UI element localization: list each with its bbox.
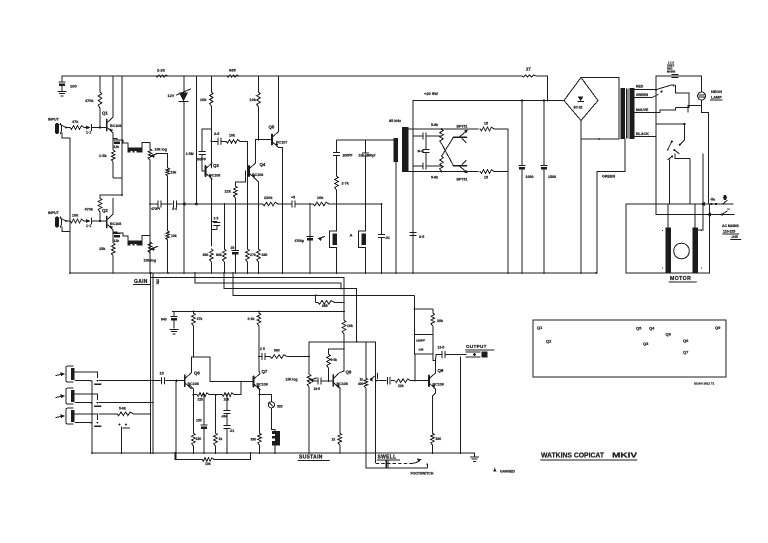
wire jack bus left — [91, 381, 93, 453]
resistor 150 (Q6 emitter) — [192, 395, 202, 453]
svg-text:AC MAINS: AC MAINS — [722, 224, 740, 228]
resistor 22k (Q4 base) — [225, 171, 246, 250]
label chart Q9 — [715, 325, 721, 330]
capacitor 25 (x235) — [231, 246, 239, 273]
wire bus4 to 20k — [413, 308, 432, 310]
wire x336 vertical top — [336, 140, 338, 152]
node rail junctions — [69, 272, 597, 274]
svg-text:47k: 47k — [197, 317, 203, 321]
potentiometer 10k log (sustain) — [286, 342, 321, 453]
svg-text:BC108: BC108 — [337, 382, 348, 386]
svg-text:BC108: BC108 — [257, 383, 268, 387]
svg-text:470Pf: 470Pf — [151, 207, 161, 211]
svg-text:12k: 12k — [114, 239, 120, 243]
resistor 2-2k (Q7 load) — [248, 311, 261, 371]
wire Q1 emitter tail — [113, 166, 122, 195]
transistor Q8 BC108 — [333, 370, 352, 389]
wire Q2 collector up — [112, 198, 114, 214]
svg-text:100: 100 — [70, 84, 77, 89]
wire cap-10k — [296, 203, 313, 205]
svg-text:MOTOR: MOTOR — [670, 276, 691, 282]
svg-text:RED: RED — [636, 85, 644, 89]
svg-text:GREEN: GREEN — [602, 175, 615, 179]
wire Q3 emitter — [210, 179, 212, 246]
svg-text:Q9: Q9 — [438, 368, 444, 373]
wire to x336 — [329, 203, 382, 205]
wire jack3 wiring — [75, 372, 98, 382]
svg-text:·1M: ·1M — [418, 348, 424, 352]
switch contact jack5 — [90, 422, 101, 426]
wire x703 — [696, 154, 703, 230]
wire Q4 emitter — [256, 179, 259, 249]
wire ac terminal 2 — [656, 204, 734, 217]
svg-text:110-225: 110-225 — [723, 230, 735, 234]
capacitor 3-5 (Q3 out) — [214, 132, 226, 145]
wire Q9 collector — [433, 354, 436, 373]
wire top supply rail — [62, 75, 522, 77]
wire Q1 emitter down — [112, 133, 114, 140]
svg-text:INPUT: INPUT — [48, 118, 60, 122]
wire tap MAUVE — [635, 108, 661, 113]
svg-text:22k: 22k — [398, 384, 404, 388]
svg-text:~: ~ — [727, 207, 730, 213]
svg-text:320: 320 — [277, 405, 283, 409]
wire q9 coll to cap — [435, 355, 438, 361]
capacitor 470PF (mix ch1) — [151, 201, 161, 211]
wire Q8 collector — [340, 342, 344, 373]
svg-text:MKIV: MKIV — [612, 453, 637, 460]
wire swell wiper — [369, 373, 377, 381]
resistor 10k (feedback bottom) — [175, 453, 251, 466]
svg-text:Q6: Q6 — [683, 338, 689, 343]
jack J4 (echo) — [56, 388, 74, 404]
wire Q5 emitter down — [279, 148, 284, 274]
resistor 47k — [70, 120, 84, 129]
resistor 5-6k (Q8 fb) — [327, 348, 345, 381]
wire Q2 emitter to head2 — [113, 233, 128, 240]
capacitor 1000pf (x365) — [359, 140, 377, 231]
svg-text:20k: 20k — [437, 319, 443, 323]
svg-text:10k: 10k — [171, 171, 177, 175]
wire pot1 down — [149, 160, 151, 273]
svg-text:10k: 10k — [250, 98, 257, 102]
resistor 685 (in top rail) — [227, 68, 239, 78]
svg-text:BY-32: BY-32 — [574, 106, 583, 110]
svg-text:Q2: Q2 — [546, 339, 552, 344]
svg-text:1·5k: 1·5k — [99, 154, 107, 158]
label MOTOR — [669, 276, 697, 282]
svg-text:1·5M: 1·5M — [186, 152, 194, 156]
svg-text:BFY51: BFY51 — [457, 178, 468, 182]
capacitor 15 (Q6 input) — [158, 372, 185, 384]
svg-text:A: A — [350, 233, 353, 238]
wire Q1 emitter to head — [113, 140, 128, 147]
resistor 1k (Q8 emitter) — [332, 433, 342, 453]
wire head A down — [365, 248, 367, 274]
wire head1 to pot — [142, 143, 150, 150]
svg-text:-245: -245 — [731, 235, 738, 239]
resistor 10k (Q8 load) — [342, 310, 353, 342]
wire 220k-cap — [278, 203, 291, 205]
svg-text:13·5: 13·5 — [314, 387, 321, 391]
wire bottom ground rail — [92, 452, 475, 454]
capacitor 640 + ground — [161, 312, 178, 334]
svg-text:3 5: 3 5 — [214, 217, 219, 221]
svg-text:390: 390 — [203, 253, 209, 257]
svg-text:15: 15 — [484, 122, 488, 126]
svg-text:Q1: Q1 — [537, 325, 543, 330]
svg-text:150: 150 — [196, 419, 202, 423]
wire bus4 — [233, 273, 414, 309]
svg-text:15k: 15k — [99, 247, 106, 251]
resistor 1-5M — [184, 102, 194, 274]
wire gain pot down pair — [151, 273, 154, 453]
transistor Q9 BC108 — [429, 368, 444, 389]
resistor 10k (Q5 load) — [250, 76, 261, 140]
svg-text:Q8: Q8 — [666, 332, 672, 337]
node Q1 base — [99, 126, 101, 128]
svg-text:680: 680 — [274, 349, 280, 353]
svg-text:685: 685 — [229, 68, 236, 73]
motor rotor — [674, 243, 690, 259]
head B (playback) — [319, 231, 337, 248]
svg-text:2·7k: 2·7k — [342, 182, 349, 186]
wire x336 to head B — [336, 204, 338, 231]
wire y204 left — [149, 203, 157, 205]
wire bank2 out — [670, 154, 690, 204]
svg-text:685: 685 — [322, 304, 328, 308]
svg-text:Q6: Q6 — [194, 371, 200, 376]
svg-text:470k: 470k — [85, 208, 94, 212]
capacitor 1000 — [519, 166, 534, 274]
motor terminal marks — [662, 230, 703, 269]
label title WATKINS COPICAT MKIV — [541, 453, 638, 460]
wire Q6 emitter — [191, 387, 194, 396]
resistor 1k (Q6) — [214, 395, 223, 453]
svg-text:25k: 25k — [156, 279, 160, 285]
svg-text:10k: 10k — [205, 462, 211, 466]
resistor 15 (osc upper out) — [480, 122, 494, 131]
svg-text:220k: 220k — [264, 196, 273, 200]
wire osc lower rail — [413, 171, 478, 173]
svg-text:100PF: 100PF — [416, 339, 425, 343]
label chart Q2 — [546, 339, 552, 344]
jack OUTPUT — [466, 351, 488, 357]
resistor 2-7k — [335, 176, 349, 204]
ganged link mark — [386, 461, 388, 468]
label OUTPUT — [466, 344, 495, 350]
svg-text:Q3: Q3 — [213, 163, 219, 168]
svg-text:Q7: Q7 — [262, 369, 268, 374]
svg-text:27: 27 — [526, 67, 531, 72]
label chart Q6 — [683, 338, 689, 343]
wire Q2 bias feed — [100, 76, 123, 196]
svg-text:10k: 10k — [171, 234, 177, 238]
svg-text:1·1: 1·1 — [86, 224, 91, 228]
wire osc frame — [409, 101, 414, 274]
svg-text:SUSTAIN: SUSTAIN — [299, 455, 323, 461]
capacitor -064 — [221, 394, 230, 419]
resistor 10k (input2) — [70, 214, 84, 223]
wire bridge bottom to ground rail — [580, 139, 582, 273]
label AC MAINS — [722, 224, 741, 239]
resistor 80k (x224) — [216, 203, 226, 273]
transistor Q1 BC108 — [102, 111, 121, 134]
wire x175 vertical — [175, 381, 177, 460]
wire green primary return — [597, 139, 625, 273]
wire bridge bottom loop — [581, 121, 619, 140]
resistor 22k (Q9 input) — [395, 379, 430, 388]
svg-text:10k: 10k — [224, 398, 230, 402]
transformer T1 core — [621, 88, 635, 139]
svg-text:15: 15 — [484, 176, 488, 180]
svg-text:22k: 22k — [198, 398, 204, 402]
wire pot to Q8 — [313, 378, 329, 384]
svg-text:10k: 10k — [347, 324, 353, 328]
transformer T2 85kHz core — [389, 119, 409, 172]
capacitor 150 (Q6) — [196, 395, 207, 453]
svg-text:300: 300 — [358, 382, 364, 386]
resistor 10k (Q3 collector load) — [200, 76, 213, 168]
capacitor 1-1 (input2 coupling) — [84, 218, 100, 228]
svg-text:Q3: Q3 — [643, 341, 649, 346]
resistor 685 (feedback) — [315, 295, 345, 309]
wire tap BLACK — [635, 132, 657, 137]
svg-text:BC108: BC108 — [188, 382, 199, 386]
transistor Q BFY51 upper — [454, 125, 468, 143]
svg-text:85 kHz: 85 kHz — [389, 119, 401, 123]
label chart Q8 — [666, 332, 672, 337]
wire main ground rail — [70, 272, 596, 274]
resistor 10k (Q6 fb2) — [222, 393, 241, 402]
wire Q4 collector — [256, 139, 273, 163]
capacitor 500PF — [196, 129, 206, 171]
resistor 330 (x258) — [257, 203, 268, 273]
label GANGED — [493, 468, 515, 474]
capacitor 2-5 + resistor 680 — [259, 347, 308, 360]
wire y204 mid — [196, 203, 258, 205]
svg-text:BC108: BC108 — [433, 383, 444, 387]
svg-text:5-6k: 5-6k — [431, 123, 438, 127]
head / volume element ch1 — [128, 144, 142, 153]
svg-text:27k: 27k — [250, 253, 256, 257]
resistor 470k (Q1 bias) — [85, 76, 102, 128]
wire Q2 emitter down — [112, 230, 114, 233]
switch SW2a — [667, 140, 685, 150]
jack J2 INPUT — [48, 211, 62, 228]
label chart Q4 — [649, 326, 655, 331]
head / volume element ch2 — [128, 237, 142, 246]
wire Q6 emitter chain — [193, 394, 197, 396]
svg-text:Q9: Q9 — [715, 325, 721, 330]
svg-text:470k: 470k — [85, 99, 94, 103]
wire input1 sleeve down — [62, 133, 70, 273]
label chart Q5 — [636, 326, 642, 331]
svg-text:FOOTSWITCH: FOOTSWITCH — [411, 472, 434, 476]
jack J5 (echo) — [56, 408, 74, 424]
chart transistor location box — [533, 320, 726, 377]
svg-text:13-5: 13-5 — [438, 346, 445, 350]
wire x196 vertical — [195, 76, 197, 204]
wire jack4 wiring — [75, 394, 98, 404]
feedback box 100PF 1M — [414, 309, 433, 354]
svg-text:12k: 12k — [114, 145, 120, 149]
svg-text:+20 5W: +20 5W — [424, 91, 438, 96]
svg-text:22k: 22k — [225, 190, 232, 194]
svg-text:330: 330 — [436, 437, 442, 441]
svg-text:1·1: 1·1 — [86, 131, 91, 135]
wire fb mid — [203, 394, 222, 396]
svg-text:2-2k: 2-2k — [157, 68, 166, 73]
wire Q7 emitter — [257, 387, 260, 433]
resistor 20k (Q9 load) — [431, 309, 443, 335]
wire x522 vertical — [521, 99, 523, 165]
svg-text:1k: 1k — [332, 438, 336, 442]
bridge rectifier BY-32 — [564, 78, 598, 121]
resistor 10k (echo send) — [313, 196, 329, 206]
record head (sustain) — [271, 408, 280, 453]
svg-text:10k: 10k — [200, 98, 207, 102]
svg-text:NEON: NEON — [711, 90, 722, 94]
neon lamp — [698, 90, 723, 100]
svg-text:Q4: Q4 — [260, 162, 266, 167]
resistor 27 — [522, 67, 536, 78]
wire bus3 — [224, 273, 357, 342]
resistor 10k (pot1 feed) — [157, 154, 177, 205]
wire Q2 base — [100, 220, 107, 222]
capacitor 12k5 (Q1 emitter bypass) — [113, 139, 120, 150]
potentiometer 10k log (ch2 level) — [144, 242, 158, 263]
capacitor 0-1 (osc lower) — [413, 163, 442, 169]
svg-text:1k: 1k — [360, 378, 364, 382]
resistor 470k (Q2 bias) — [85, 195, 102, 221]
wire x121 vertical — [121, 427, 123, 453]
jack J3 (echo) — [56, 366, 74, 382]
fuse -5a — [710, 195, 727, 204]
svg-text:330: 330 — [262, 253, 268, 257]
svg-text:1000: 1000 — [526, 175, 534, 179]
resistor 10k (y141) — [226, 134, 248, 144]
pot wiper arrows on y204 — [182, 202, 198, 206]
svg-text:Q5: Q5 — [636, 326, 642, 331]
svg-text:INPUT: INPUT — [48, 211, 60, 215]
wire Q3 branch left — [202, 128, 212, 130]
wire osc cross-coupling — [442, 137, 454, 166]
svg-text:200PF: 200PF — [343, 154, 353, 158]
svg-text:12V: 12V — [168, 94, 175, 98]
svg-text:BC108: BC108 — [252, 173, 263, 177]
svg-text:Q2: Q2 — [102, 208, 108, 213]
wire Q1 base — [100, 127, 107, 129]
svg-text:10k: 10k — [317, 196, 324, 200]
wire +20 rail — [413, 91, 563, 101]
wire Q8 base — [328, 380, 334, 382]
potentiometer SWELL 1k — [358, 342, 368, 453]
potentiometer 10k log (ch1 level) — [148, 148, 167, 160]
svg-text:BLACK: BLACK — [636, 132, 649, 136]
svg-text:3·4: 3·4 — [172, 207, 177, 211]
wire Q7 collector — [258, 356, 260, 374]
capacitor 13-5 (output) — [436, 346, 466, 358]
capacitor C 100 supply decoupling — [59, 76, 78, 91]
switch SW2b — [668, 149, 679, 160]
svg-text:BC108: BC108 — [209, 174, 220, 178]
svg-text:GANGED: GANGED — [500, 470, 515, 474]
wire pot2 down — [149, 253, 151, 273]
wire x396 vertical — [395, 162, 397, 273]
label scan note — [694, 382, 715, 386]
label GAIN — [134, 279, 151, 285]
switch SW1a — [655, 76, 675, 93]
svg-text:1k: 1k — [219, 437, 223, 441]
svg-text:2·2k: 2·2k — [248, 317, 255, 321]
svg-text:3·5: 3·5 — [419, 235, 424, 239]
svg-text:SCAN 2612 T1: SCAN 2612 T1 — [694, 382, 715, 386]
node bottom rail junctions — [91, 452, 461, 454]
switch contact jack4 — [90, 402, 154, 406]
resistor 2-2k (in top rail) — [156, 68, 168, 78]
resistor 220k — [259, 196, 279, 206]
svg-text:Q7: Q7 — [683, 350, 689, 355]
capacitor 200PF — [333, 153, 352, 176]
svg-text:+5: +5 — [291, 196, 295, 200]
svg-text:10k: 10k — [229, 134, 235, 138]
label FOOTSWITCH — [411, 472, 434, 476]
svg-text:5-6k: 5-6k — [119, 407, 126, 411]
wire Q3 collector diag joins x211 — [210, 141, 212, 143]
capacitor 4700pf — [295, 237, 314, 244]
svg-text:25: 25 — [231, 246, 235, 250]
svg-text:Φ·Φ: Φ·Φ — [418, 150, 425, 154]
svg-text:GREEN: GREEN — [636, 93, 649, 97]
wire jack5 wiring — [75, 414, 98, 424]
wire Q3 out y141 — [211, 140, 215, 142]
wire q8 node line — [309, 341, 376, 343]
motor stator bar left — [666, 204, 672, 273]
wire y140 bias line — [337, 139, 394, 141]
resistor 27k (x247) — [246, 203, 256, 273]
wire rail to bridge corner — [536, 76, 548, 101]
capacitor 1-1 (input1 coupling) — [84, 125, 100, 135]
svg-text:Q8: Q8 — [346, 370, 352, 375]
svg-text:640: 640 — [161, 318, 167, 322]
svg-text:330: 330 — [251, 438, 257, 442]
wire osc out — [494, 129, 508, 273]
resistor 5-6k (jack5) — [99, 407, 151, 429]
ground (supply cap) — [58, 92, 66, 96]
svg-text:Q4: Q4 — [649, 326, 655, 331]
svg-text:10k: 10k — [72, 214, 79, 218]
wire tap RED — [635, 85, 656, 90]
resistor 5-6k (osc lower) — [431, 156, 443, 179]
transistor Q3 BC108 — [206, 163, 221, 179]
wire Q1 collector up — [112, 76, 114, 117]
capacitor 0-1 (osc upper) — [413, 133, 442, 139]
capacitor 3-5 (x413) — [410, 233, 424, 239]
resistor 1-5k (Q1 emitter) — [99, 140, 115, 166]
wire y124 link — [656, 90, 686, 204]
wire jack5 out — [0, 0, 1, 1]
wire head B down — [336, 248, 338, 274]
svg-text:LAMP: LAMP — [711, 96, 722, 100]
wire down x247 — [247, 141, 249, 249]
svg-text:-5a: -5a — [710, 198, 715, 202]
switch contact jack3 — [90, 380, 158, 384]
svg-text:500PF: 500PF — [196, 158, 206, 162]
transistor Q7 BC108 — [254, 369, 268, 390]
capacitor 3-4 (mix) — [162, 201, 197, 211]
capacitor 3-5 (Q3 emitter bypass) — [211, 217, 220, 230]
